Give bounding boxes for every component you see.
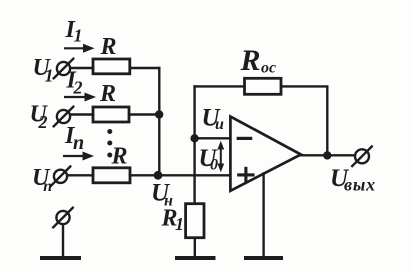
svg-text:2: 2: [38, 112, 48, 132]
svg-text:п: п: [43, 178, 52, 195]
svg-text:и: и: [215, 116, 224, 133]
op-amp minus sign: [238, 137, 251, 140]
wire minus input: [195, 137, 231, 139]
junction node bus row2: [155, 110, 163, 118]
junction node minus input: [190, 134, 198, 142]
wire row1 terminal to R: [70, 67, 93, 69]
svg-text:R: R: [240, 44, 261, 77]
resistor R1: [186, 204, 204, 238]
svg-text:R: R: [99, 81, 116, 107]
current arrow I2: [64, 96, 86, 98]
wire summing bus: [158, 68, 160, 175]
current arrow I1: [64, 47, 85, 49]
resistor R (input 2): [93, 107, 129, 122]
resistor R (input 1): [93, 59, 130, 74]
wire summing node to op-amp plus input: [130, 174, 230, 176]
terminal U2 input: [57, 110, 70, 123]
ground bar under op-amp: [246, 256, 281, 260]
ground bar bottom left: [42, 256, 79, 260]
wire inverting branch vertical: [193, 86, 195, 203]
svg-text:1: 1: [45, 66, 54, 86]
resistor Roc (feedback): [245, 78, 282, 94]
wire feedback left: [195, 85, 245, 87]
svg-text:R: R: [100, 34, 117, 60]
wire op-amp common to ground: [262, 174, 264, 258]
current arrow In: [63, 155, 84, 157]
svg-text:вых: вых: [344, 175, 376, 195]
svg-text:1: 1: [175, 214, 184, 234]
resistor R (input n): [93, 168, 130, 183]
wire row2 terminal to R: [70, 113, 93, 115]
voltage arrow U0 (differential): [220, 146, 222, 167]
terminal common: [56, 211, 69, 224]
ground bar under R1: [177, 256, 214, 260]
junction node Un summing: [154, 171, 163, 180]
svg-text:1: 1: [74, 26, 83, 46]
wire row3 terminal to R: [68, 174, 94, 176]
svg-text:R: R: [111, 144, 128, 170]
junction node output: [323, 151, 331, 159]
terminal output: [355, 149, 369, 163]
op-amp U1 triangle: [230, 117, 301, 191]
svg-text:0: 0: [210, 157, 218, 174]
ellipsis dots between inputs: [107, 129, 112, 134]
svg-text:2: 2: [73, 78, 83, 98]
wire row2 R to bus: [129, 113, 159, 115]
op-amp plus sign: [239, 173, 253, 176]
wire row1 R to bus: [130, 67, 160, 69]
wire R1 to ground: [194, 238, 196, 258]
wire output: [301, 154, 355, 156]
wire feedback right: [281, 86, 327, 155]
terminal Un input: [54, 170, 67, 183]
svg-text:ос: ос: [261, 60, 276, 77]
terminal U1 input: [57, 62, 70, 75]
wire common terminal to ground: [62, 225, 64, 258]
svg-text:п: п: [73, 132, 84, 154]
